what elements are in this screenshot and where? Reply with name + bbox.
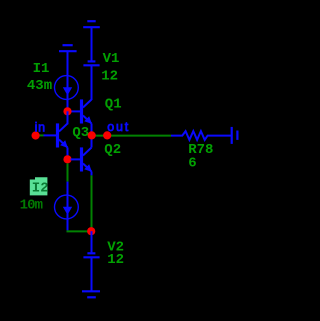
wire I1 bottom lead to node bbox=[67, 99, 69, 111]
Q2 emitter arrow bbox=[84, 164, 92, 172]
ground GND1 (top, above V1) bbox=[83, 21, 100, 27]
node dot bottom junction bbox=[87, 227, 95, 235]
wire out net horizontal bbox=[92, 135, 172, 137]
Q3 emitter diagonal bbox=[59, 140, 68, 148]
svg-text:6: 6 bbox=[188, 156, 196, 172]
wire Q3 collector vertical bbox=[67, 111, 69, 124]
svg-text:43m: 43m bbox=[27, 78, 52, 94]
Q3 collector diagonal bbox=[59, 124, 68, 132]
svg-text:I1: I1 bbox=[33, 61, 50, 77]
svg-text:V1: V1 bbox=[103, 51, 120, 67]
wire Q3 emitter vertical bbox=[67, 148, 69, 160]
battery V1 bbox=[83, 61, 99, 65]
Q3 base bar bbox=[56, 123, 59, 147]
svg-text:12: 12 bbox=[107, 252, 124, 268]
transistor Q1 bbox=[71, 99, 92, 123]
Q2 collector diagonal bbox=[83, 148, 92, 156]
battery plates at out right end bbox=[232, 127, 238, 144]
wire I2 bottom lead bbox=[67, 219, 69, 231]
node in dot bbox=[31, 131, 39, 139]
Q1 emitter diagonal bbox=[83, 116, 92, 124]
wire V1 top lead bbox=[91, 27, 93, 60]
svg-text:out: out bbox=[107, 120, 130, 134]
node dot at I1/Q1 base/Q3 collector bbox=[63, 107, 71, 115]
Q1 collector diagonal bbox=[83, 100, 92, 108]
ground GND2 (above I1) bbox=[59, 45, 77, 51]
wire I1 top lead bbox=[67, 51, 69, 76]
svg-text:Q1: Q1 bbox=[105, 96, 122, 112]
wire Q2 emitter net vertical bbox=[91, 175, 93, 229]
Q1 emitter arrow bbox=[84, 116, 92, 124]
node dot out junction bbox=[88, 131, 96, 139]
wire bottom net horizontal bbox=[67, 230, 90, 232]
node dot out label attach bbox=[103, 131, 111, 139]
Q2 base bar bbox=[80, 147, 83, 171]
Q2 emitter diagonal bbox=[83, 164, 92, 172]
transistor Q3 bbox=[44, 123, 68, 147]
selection box I2 bbox=[30, 177, 48, 195]
wire V2 top lead bbox=[91, 231, 93, 252]
Q3 base lead bbox=[44, 134, 57, 136]
wire I2 top lead bbox=[67, 182, 69, 196]
resistor R78 bbox=[171, 131, 231, 140]
ground GND3 (bottom) bbox=[82, 291, 100, 297]
wire Q2 emitter stub bbox=[91, 172, 93, 176]
wire Q2 base lead bbox=[71, 158, 81, 160]
wire Q3 emitter net vertical bbox=[67, 163, 69, 181]
node dot Q3 emitter / Q2 base bbox=[63, 155, 71, 163]
svg-text:Q2: Q2 bbox=[104, 142, 121, 158]
Q3 emitter arrow bbox=[60, 140, 68, 148]
wire in net stub bbox=[37, 134, 44, 136]
svg-text:10m: 10m bbox=[20, 198, 43, 214]
Q1 base lead bbox=[71, 110, 81, 112]
current source I1 bbox=[55, 76, 79, 100]
wire V1 bottom lead to Q1 collector bbox=[91, 65, 93, 100]
svg-text:12: 12 bbox=[101, 68, 118, 84]
svg-text:I2: I2 bbox=[32, 181, 49, 197]
transistor Q2 bbox=[82, 147, 92, 171]
wire Q1 emitter to Q2 collector bbox=[91, 124, 93, 148]
svg-text:Q3: Q3 bbox=[72, 125, 89, 141]
wire V2 bottom lead bbox=[91, 257, 93, 291]
svg-text:in: in bbox=[35, 121, 46, 135]
Q1 base bar bbox=[80, 99, 83, 123]
current source I2 bbox=[55, 195, 79, 219]
battery V2 bbox=[83, 253, 99, 257]
